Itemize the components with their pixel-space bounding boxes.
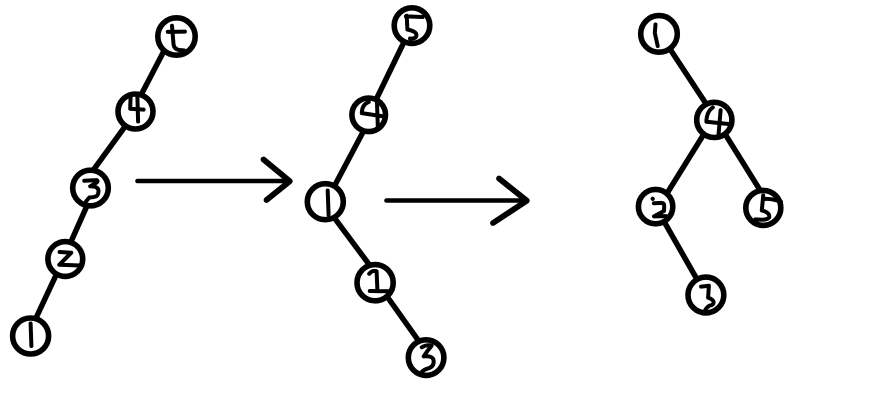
tree1 node circle 2 [48,242,83,277]
tree2 edge 4-1 [334,130,365,188]
tree1 label 5 [168,30,185,34]
tree1 edge 5-4 [141,48,166,96]
tree3 node circle 2 [638,189,672,223]
tree1 node circle 1 [13,318,49,354]
tree1 node circle 3 [73,170,109,206]
tree2 edge 1-2 [335,218,370,265]
tree2 edge 5-4 [369,26,412,115]
tree3 node circle 4 [697,102,732,137]
tree3 node circle 3 [688,277,724,313]
tree3 label 4 [706,108,732,125]
tree1 edge 2-1 [36,272,58,318]
tree2 node circle 1 [307,184,343,220]
tree3 label 3 [701,286,714,310]
tree2 node circle 2 [357,265,393,301]
tree3 edge 1-4 [670,49,706,104]
tree2 label 5 [406,14,423,19]
tree3 edge 4-2 [668,135,704,192]
tree3 node circle 5 [746,190,781,225]
tree1 node circle 4 [118,94,153,129]
tree2 node circle 5 [394,8,430,44]
tree1 label 3 [84,180,98,201]
tree3 label 1 [655,25,658,47]
tree3 edge 2-3 [656,207,706,295]
tree3 edge 4-5 [725,135,759,190]
tree2 edge 2-3 [387,297,419,342]
arrow 2 shaft [387,198,527,203]
tree3 node circle 1 [641,16,678,53]
tree2 label 2 [369,271,389,291]
tree1 node circle 5 [158,18,195,55]
tree2 node circle 3 [408,340,444,376]
tree2 label 4 [362,102,384,117]
tree1 label 2 [59,252,80,266]
tree1 label 4 [130,96,143,109]
tree3 label 5 [755,196,769,220]
tree2 label 3 [422,345,434,372]
tree1 edge 3-2 [72,204,89,241]
tree3 label 2 [654,203,666,217]
arrow 1 head [264,160,290,201]
tree1 edge 4-3 [93,125,127,171]
arrow 2 head [493,179,527,224]
tree1 label 1 [29,324,34,347]
tree2 label 1 [326,191,331,216]
arrow 1 shaft [138,179,290,184]
tree2 node circle 4 [352,98,386,132]
tree3 label 2 dot [651,197,655,201]
